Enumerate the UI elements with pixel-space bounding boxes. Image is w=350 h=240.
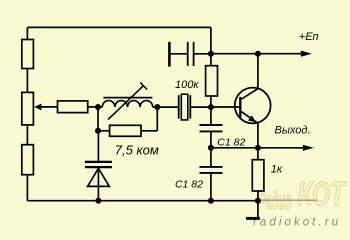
wire 7.5k right bbox=[141, 130, 157, 132]
capacitor C1a top plate bbox=[200, 124, 223, 126]
capacitor C1b top plate bbox=[200, 166, 223, 168]
wire varicap top bbox=[97, 131, 99, 161]
svg-text:100к: 100к bbox=[175, 79, 199, 91]
wire base lead bbox=[211, 106, 239, 108]
node junction base bbox=[208, 104, 214, 110]
wire crystal to base node bbox=[191, 106, 211, 108]
wire C1b to rail bbox=[210, 173, 212, 201]
varicap VD1 top plate bbox=[85, 161, 112, 163]
resistor R3 bbox=[22, 145, 34, 175]
wire to 7.5k bbox=[98, 130, 110, 132]
resistor 1k bbox=[252, 160, 264, 191]
svg-text:radiokot.ru: radiokot.ru bbox=[253, 217, 339, 229]
output arrow head bbox=[303, 145, 314, 151]
crystal ZQ1 body bbox=[181, 94, 188, 120]
potentiometer R2 wiper arrow bbox=[34, 104, 41, 111]
svg-text:7,5 ком: 7,5 ком bbox=[115, 143, 159, 158]
wire C1a to output node bbox=[210, 131, 212, 147]
wire R2-R3 bbox=[26, 125, 28, 145]
wire output arrow bbox=[258, 147, 304, 149]
crystal ZQ1 right plate bbox=[189, 95, 191, 118]
capacitor C2 right plate bbox=[193, 42, 195, 66]
node junction rail mid bbox=[208, 198, 214, 204]
transistor VT1 circle bbox=[235, 88, 271, 124]
wire minus lead bbox=[257, 201, 259, 218]
minus terminal bbox=[246, 217, 260, 220]
inductor adjust arrow bbox=[108, 86, 144, 120]
wire mid node down bbox=[210, 148, 212, 167]
transistor VT1 emitter diagonal bbox=[241, 112, 258, 124]
resistor Rh horizontal bbox=[58, 101, 88, 113]
inductor adjust arrow T-bar bbox=[140, 83, 147, 90]
wire 7.5k up to coil right bbox=[156, 107, 158, 131]
capacitor C2 left plate bbox=[187, 42, 189, 66]
inductor core line bbox=[103, 97, 152, 99]
wire R1-R2 bbox=[26, 69, 28, 93]
wire wiper lead bbox=[41, 106, 58, 108]
wire emitter down bbox=[257, 123, 259, 148]
antenna terminal bar bbox=[168, 42, 171, 67]
wire varicap down bbox=[97, 168, 99, 200]
varicap VD1 bottom plate bbox=[85, 166, 112, 168]
wire collector up bbox=[257, 54, 259, 89]
wire base node down bbox=[210, 107, 212, 125]
resistor 7.5k bbox=[110, 125, 141, 136]
wire left vertical bottom bbox=[26, 175, 28, 201]
svg-text:С1 82: С1 82 bbox=[217, 136, 245, 148]
wire top rail drop bbox=[210, 27, 212, 53]
wire 1k to rail bbox=[257, 191, 259, 201]
node junction coil left bbox=[95, 104, 101, 110]
potentiometer R2 body bbox=[22, 92, 34, 125]
svg-text:Выход.: Выход. bbox=[275, 125, 311, 137]
crystal ZQ1 left plate bbox=[178, 95, 180, 118]
node junction emitter bbox=[255, 145, 261, 151]
svg-text:КОТ: КОТ bbox=[298, 175, 347, 212]
wire bottom rail thin extension bbox=[258, 199, 317, 201]
wire capacitor to supply node bbox=[194, 53, 211, 55]
svg-text:1к: 1к bbox=[271, 164, 283, 176]
svg-text:С1 82: С1 82 bbox=[175, 178, 203, 190]
node junction supply left bbox=[208, 51, 214, 57]
node junction rail right bbox=[255, 198, 261, 204]
svg-text:+Еп: +Еп bbox=[299, 31, 319, 43]
wire top rail bbox=[27, 26, 211, 28]
wire Rh to coil bbox=[88, 106, 103, 108]
transistor VT1 base bar bbox=[239, 97, 241, 118]
resistor 100k bbox=[206, 66, 218, 96]
node junction collector bbox=[255, 51, 261, 57]
node junction 7.5k left bbox=[95, 128, 101, 134]
wire supply to 100k bbox=[210, 54, 212, 66]
capacitor C1a bottom plate bbox=[200, 130, 223, 132]
transistor VT1 emitter arrow bbox=[248, 115, 256, 122]
node junction coil right bbox=[154, 104, 160, 110]
varicap VD1 triangle bbox=[88, 168, 110, 186]
wire output bbox=[211, 147, 258, 149]
node junction mid bbox=[208, 145, 214, 151]
wire 100k to base node bbox=[210, 96, 212, 107]
inductor L1 coil bbox=[102, 101, 152, 108]
wire coil junction down bbox=[97, 107, 99, 131]
resistor R1 bbox=[22, 40, 34, 69]
wire coil to crystal bbox=[153, 106, 178, 108]
node junction rail left bbox=[95, 198, 101, 204]
transistor VT1 collector diagonal bbox=[241, 89, 258, 100]
supply arrow head bbox=[301, 51, 312, 57]
wire emitter to 1k bbox=[257, 148, 259, 160]
wire antenna to capacitor bbox=[171, 53, 187, 55]
wire bottom rail bbox=[27, 200, 258, 202]
capacitor C1b bottom plate bbox=[200, 172, 223, 174]
wire supply rail bbox=[211, 53, 301, 55]
wire left vertical top bbox=[26, 27, 28, 39]
watermark Radio KOT bbox=[259, 175, 347, 215]
